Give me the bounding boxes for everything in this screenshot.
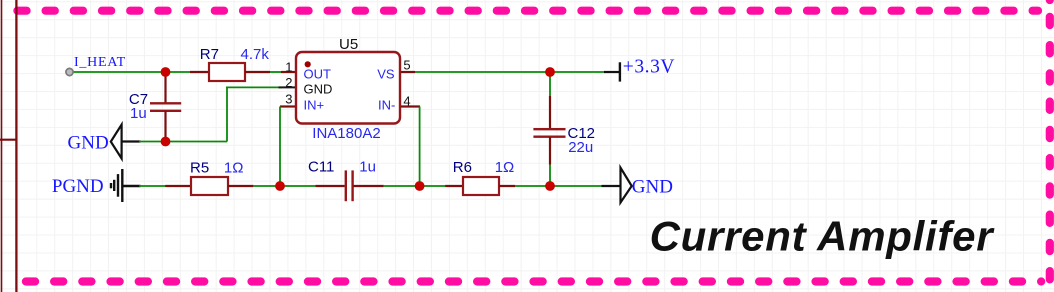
IC U5 pin2 stub [279,86,297,88]
svg-text:4: 4 [403,94,410,109]
svg-text:U5: U5 [339,36,358,53]
svg-text:3: 3 [285,91,292,106]
wire GND net vertical to pin2 [226,87,228,141]
IC U5 pin3 stub [280,105,296,107]
capacitor C7 plates [150,102,181,104]
wire C12 bottom [549,165,551,187]
resistor R5 left lead [165,185,191,187]
svg-text:C11: C11 [308,158,334,175]
svg-text:4.7k: 4.7k [241,46,270,63]
resistor R5 right lead [228,185,253,187]
pin open circle I_HEAT [66,68,73,75]
capacitor C12 bottom lead [549,137,551,165]
IC U5 body [296,52,400,124]
resistor R7 right lead [245,71,270,73]
svg-text:Current Amplifer: Current Amplifer [650,213,996,260]
wire net I_HEAT horizontal [74,71,191,73]
sheet frame row tick [0,139,16,141]
junction R6/C12 [545,181,555,191]
svg-text:GND: GND [68,133,109,154]
capacitor C11 left lead [315,185,344,187]
svg-text:1Ω: 1Ω [495,159,515,176]
resistor R7 body [209,63,245,81]
power +3.3V bar [619,62,621,81]
svg-text:22u: 22u [568,139,593,156]
svg-text:5: 5 [403,58,410,73]
svg-text:VS: VS [377,66,395,81]
sheet frame inner line [15,0,17,292]
resistor R5 body [191,177,228,195]
svg-text:OUT: OUT [304,66,332,81]
wire C11 to R6 [384,185,445,187]
ground symbol PGND bars [111,169,141,202]
capacitor C12 top lead [549,96,551,129]
wire R5 to C11 [253,185,315,187]
resistor R7 left lead [190,71,209,73]
svg-text:2: 2 [285,75,292,90]
ground flag GND left triangle [111,125,122,159]
IC U5 pin5 stub [400,71,415,73]
wire U5 pin3 vertical [279,107,281,187]
wire PGND to R5 [139,185,166,187]
svg-text:IN+: IN+ [304,97,325,112]
resistor R6 body [463,177,499,195]
capacitor C12 plates [533,128,565,130]
svg-text:1: 1 [285,60,292,75]
ground symbol PGND stub [122,185,140,187]
capacitor C7 top lead [164,74,166,103]
capacitor C11 right lead [354,185,384,187]
svg-text:+3.3V: +3.3V [623,57,675,78]
wire U5 pin4 vertical [419,107,421,187]
IC U5 pin1 mark dot [305,61,311,67]
resistor R6 left lead [445,185,463,187]
svg-text:GND: GND [632,177,673,198]
capacitor C11 plates [345,170,347,201]
ground flag GND left stub [122,140,141,142]
wire GND net horizontal [139,141,227,143]
ground flag GND right triangle [621,168,632,203]
svg-text:R7: R7 [200,46,219,63]
junction +3.3V/C12 [545,67,555,77]
IC U5 pin4 stub [400,105,420,107]
svg-text:PGND: PGND [52,176,104,197]
junction I_HEAT/R7/C7 [161,67,171,77]
wire C12 top [549,72,551,96]
power +3.3V stub [604,71,620,73]
svg-text:1Ω: 1Ω [224,159,244,176]
sheet frame outer line [1,0,3,292]
svg-text:1u: 1u [130,105,147,122]
wire R7 to U5 pin1 [270,71,282,73]
wire U5 pin5 to +3.3V [415,71,604,73]
capacitor C7 bottom lead [164,111,166,142]
wire to U5 pin2 [226,86,282,88]
svg-text:IN-: IN- [378,97,395,112]
resistor R6 right lead [499,185,515,187]
IC U5 pin1 stub [281,71,296,73]
svg-text:GND: GND [304,82,333,97]
ground flag GND right stub [602,185,621,187]
junction R5/pin3 [275,181,285,191]
svg-text:1u: 1u [359,158,376,175]
wire R6 to GND [515,185,601,187]
svg-text:R6: R6 [453,159,472,176]
svg-text:R5: R5 [190,159,209,176]
junction GND/C7 [161,137,171,147]
svg-text:INA180A2: INA180A2 [312,125,380,142]
svg-text:I_HEAT: I_HEAT [74,55,126,70]
junction C11/pin4 [415,181,425,191]
